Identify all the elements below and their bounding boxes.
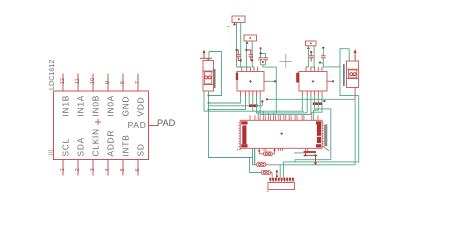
svg-text:SD: SD bbox=[135, 143, 145, 156]
pin 3 CLKIN bbox=[90, 128, 100, 175]
bottom pin stubs bbox=[241, 91, 261, 96]
pin 4 ADDR bbox=[105, 130, 115, 176]
IC U1 LDC1612 body bbox=[54, 91, 149, 160]
wire J2 down rails bbox=[354, 88, 356, 100]
connector J2 body bbox=[347, 61, 359, 88]
origin cross of symbol bbox=[95, 119, 101, 125]
svg-text:IN1B: IN1B bbox=[60, 95, 70, 117]
svg-text:7: 7 bbox=[135, 81, 141, 84]
capacitor C2 bbox=[245, 49, 253, 62]
jogs from sensor wires bbox=[237, 66, 255, 68]
pin 10 IN0B bbox=[90, 74, 100, 117]
connector J2 tab bbox=[343, 64, 345, 86]
svg-text:1A: 1A bbox=[237, 147, 242, 152]
pad bar below U2 bbox=[249, 104, 258, 107]
svg-text:LDC1612: LDC1612 bbox=[47, 60, 56, 90]
svg-text:IN1A: IN1A bbox=[75, 95, 85, 117]
wire RN1 up rails bbox=[279, 165, 281, 178]
right pin bbox=[264, 80, 269, 82]
svg-text:CLKIN: CLKIN bbox=[90, 128, 100, 156]
svg-text:1: 1 bbox=[227, 26, 231, 28]
wire loop around J2 bbox=[340, 49, 359, 96]
pin 12 IN1B bbox=[60, 74, 70, 117]
bottom pin stubs bbox=[253, 148, 308, 154]
wire U4 pin to FB2 bbox=[254, 151, 256, 165]
right pin bars bbox=[317, 123, 321, 135]
wire to right connector bbox=[328, 66, 341, 68]
pin 2 SDA bbox=[75, 137, 85, 175]
pin 9 IN0A bbox=[105, 74, 115, 117]
supply arrow VCC J2 bbox=[354, 49, 357, 53]
capacitor C1 bbox=[235, 49, 241, 62]
pin 1 SCL bbox=[60, 138, 70, 176]
connector J1 body bbox=[203, 61, 214, 92]
capacitor C6 bbox=[319, 47, 328, 67]
wire long rail to main IC bbox=[203, 91, 205, 111]
MCU U4 body bbox=[240, 120, 322, 148]
wire pin to pad bar bbox=[248, 96, 250, 104]
coil L1 bbox=[232, 16, 245, 23]
wire nest rail 2 bbox=[257, 96, 308, 115]
wire pin drop bbox=[261, 102, 263, 106]
wire L2 down bbox=[245, 41, 247, 67]
svg-text:9: 9 bbox=[105, 81, 111, 84]
svg-text:GND: GND bbox=[120, 96, 130, 117]
wire stub bbox=[294, 152, 304, 154]
coil L2 bbox=[244, 35, 257, 41]
bottom pin stubs bbox=[302, 91, 322, 96]
wire L3 down bbox=[307, 46, 309, 67]
wire rail through FB2 bbox=[267, 164, 355, 166]
corner pads bbox=[241, 121, 247, 124]
left pin bar bbox=[242, 125, 246, 144]
wire nest rail 3 bbox=[260, 96, 311, 115]
supply arrow at RN1 bbox=[276, 169, 279, 172]
capacitor pair C3 C4 bbox=[258, 47, 276, 113]
top pin stubs bbox=[306, 67, 322, 72]
wire nest right bbox=[295, 96, 331, 162]
svg-text:ADDR: ADDR bbox=[105, 130, 115, 157]
origin crosshair bbox=[279, 54, 292, 68]
supply arrow at L3 bbox=[307, 46, 310, 49]
top pin stubs bbox=[250, 115, 318, 120]
svg-text:SCL: SCL bbox=[60, 138, 70, 157]
top pin stubs bbox=[242, 67, 258, 72]
supply arrow VCC J1 bbox=[203, 50, 206, 53]
left side pin stubs bbox=[239, 123, 241, 146]
wire U2 right to J2 rail bbox=[267, 98, 355, 100]
svg-text:IN0A: IN0A bbox=[105, 95, 115, 117]
svg-text:2: 2 bbox=[75, 168, 81, 171]
coil L3 bbox=[306, 41, 317, 46]
capacitor C5 bbox=[309, 51, 313, 62]
svg-text:U1: U1 bbox=[49, 149, 55, 156]
pin 6 SD bbox=[135, 143, 145, 175]
svg-text:12: 12 bbox=[60, 78, 66, 84]
svg-text:PAD: PAD bbox=[157, 118, 176, 128]
op-amp / mux U2 body bbox=[237, 72, 264, 92]
right side pin stubs bbox=[322, 123, 324, 146]
svg-text:PAD: PAD bbox=[128, 120, 147, 130]
gray bar right of U4 bbox=[324, 124, 327, 146]
right pin bbox=[327, 80, 332, 82]
wire loop around J1 bbox=[209, 52, 222, 96]
pin 11 IN1A bbox=[75, 74, 85, 117]
origin cross U4 bbox=[280, 132, 283, 135]
wire U4 pin to FB3 bbox=[250, 148, 260, 172]
svg-text:IN0B: IN0B bbox=[90, 95, 100, 117]
wire nest rail 1 bbox=[204, 96, 304, 115]
pin 5 INTB bbox=[120, 134, 130, 175]
svg-text:5: 5 bbox=[120, 168, 126, 171]
connector J1 tab bbox=[214, 69, 216, 88]
svg-text:11: 11 bbox=[75, 78, 81, 84]
svg-text:6: 6 bbox=[135, 168, 141, 171]
svg-text:VDD: VDD bbox=[135, 97, 145, 117]
supply arrow at L2 bbox=[246, 41, 249, 44]
svg-text:INTB: INTB bbox=[120, 134, 130, 156]
ground arrow bbox=[314, 163, 317, 166]
wire L1 down bbox=[236, 23, 238, 68]
svg-text:1: 1 bbox=[60, 168, 66, 171]
pin 7 VDD bbox=[135, 74, 145, 117]
svg-text:SDA: SDA bbox=[75, 137, 85, 156]
svg-text:8: 8 bbox=[120, 81, 126, 84]
mux U3 body bbox=[299, 72, 327, 92]
svg-text:10: 10 bbox=[90, 78, 96, 84]
svg-text:3: 3 bbox=[90, 168, 96, 171]
pin 13 PAD bbox=[128, 120, 158, 130]
pad bar below U3 bbox=[313, 102, 323, 105]
wire J1 bottom fanout bbox=[209, 96, 241, 103]
supply arrow at L1 bbox=[233, 22, 236, 25]
pin 8 GND bbox=[120, 74, 130, 117]
wire long left vertical bbox=[209, 91, 255, 165]
wire bbox=[200, 57, 212, 59]
